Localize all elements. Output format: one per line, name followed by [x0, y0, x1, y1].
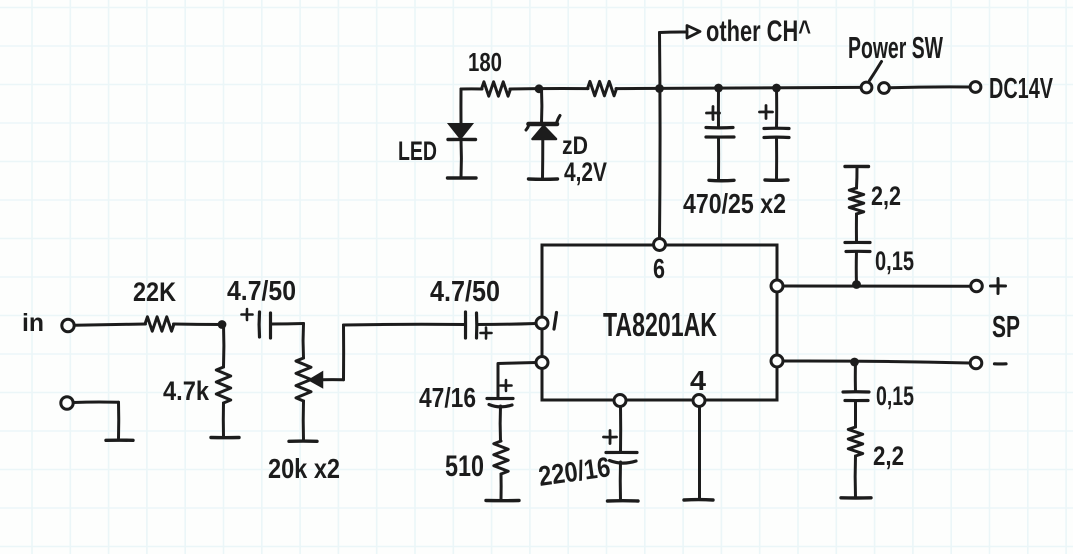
svg-text:in: in	[22, 309, 44, 337]
svg-text:47/16: 47/16	[419, 382, 476, 413]
svg-text:510: 510	[445, 450, 484, 483]
svg-text:4,2V: 4,2V	[564, 157, 607, 187]
svg-text:SP: SP	[992, 309, 1020, 344]
svg-text:0,15: 0,15	[876, 381, 914, 411]
svg-text:4: 4	[690, 365, 706, 396]
svg-text:6: 6	[653, 253, 665, 284]
svg-text:4.7/50: 4.7/50	[227, 275, 296, 306]
svg-text:TA8201AK: TA8201AK	[603, 306, 717, 343]
svg-text:4.7k: 4.7k	[163, 376, 210, 406]
svg-text:20k x2: 20k x2	[268, 453, 340, 484]
svg-text:22K: 22K	[133, 277, 176, 307]
svg-text:DC14V: DC14V	[989, 73, 1053, 105]
svg-text:2,2: 2,2	[871, 181, 901, 211]
svg-text:zD: zD	[562, 132, 588, 160]
svg-text:LED: LED	[398, 136, 437, 166]
svg-text:470/25 x2: 470/25 x2	[683, 188, 786, 219]
svg-text:2,2: 2,2	[873, 441, 904, 471]
svg-text:0,15: 0,15	[875, 246, 914, 276]
svg-text:180: 180	[468, 47, 502, 77]
svg-text:other CH^: other CH^	[706, 15, 811, 48]
svg-text:Power SW: Power SW	[848, 30, 943, 65]
svg-text:4.7/50: 4.7/50	[430, 276, 500, 308]
